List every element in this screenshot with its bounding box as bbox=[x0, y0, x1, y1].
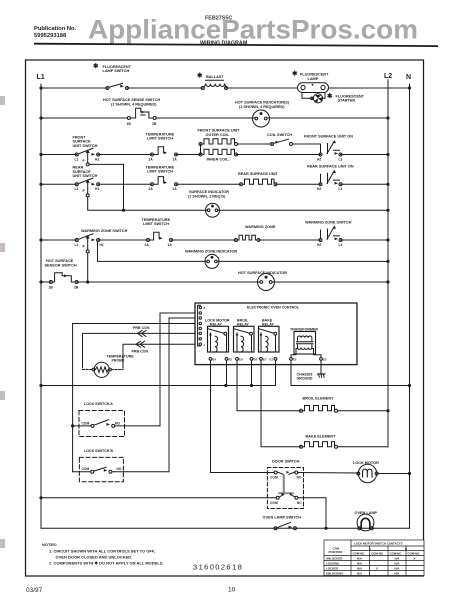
svg-text:1B: 1B bbox=[49, 285, 54, 289]
junction L2 rail8 bbox=[386, 280, 389, 283]
svg-text:NC: NC bbox=[297, 501, 302, 505]
svg-text:LAMP: LAMP bbox=[308, 77, 319, 81]
svg-text:WARMING ZONE SWITCH: WARMING ZONE SWITCH bbox=[305, 221, 352, 225]
svg-text:REAR SURFACE UNIT: REAR SURFACE UNIT bbox=[238, 172, 279, 176]
svg-text:LIMIT SWITCH: LIMIT SWITCH bbox=[147, 170, 173, 174]
wire EOC pin to lock switch B bbox=[169, 318, 195, 472]
wire PRB CON lower bbox=[123, 344, 195, 368]
svg-text:WARMING ZONE SWITCH: WARMING ZONE SWITCH bbox=[81, 229, 128, 233]
junction L1 rail6 bbox=[39, 238, 42, 241]
svg-text:WARMING ZONE: WARMING ZONE bbox=[245, 225, 276, 229]
svg-text:WARMING ZONE INDICATOR: WARMING ZONE INDICATOR bbox=[185, 250, 237, 254]
relay contact front surface unit ON bbox=[304, 135, 353, 162]
indicator hot surface indicator(s) bbox=[235, 101, 290, 128]
svg-text:AppliancePartsPros.com: AppliancePartsPros.com bbox=[88, 15, 418, 45]
notes text bbox=[42, 542, 164, 566]
svg-text:COM-NO: COM-NO bbox=[408, 552, 421, 556]
wire rail 6 warming zone row bbox=[41, 239, 77, 241]
wire rail 7 warming zone indicator row bbox=[217, 260, 388, 262]
switch lock switch B bbox=[73, 449, 169, 482]
switch coil switch bbox=[238, 133, 321, 146]
svg-text:2A: 2A bbox=[149, 187, 154, 191]
connector PRB CON upper bbox=[133, 326, 150, 336]
svg-text:REAR SURFACE UNIT ON: REAR SURFACE UNIT ON bbox=[307, 164, 354, 168]
terminal E3 bbox=[320, 358, 323, 361]
relay contact warming zone switch bbox=[305, 221, 352, 247]
svg-text:L3: L3 bbox=[339, 187, 343, 191]
svg-text:COM-NO: COM-NO bbox=[371, 552, 384, 556]
svg-text:UNIT SWITCH: UNIT SWITCH bbox=[73, 144, 98, 148]
svg-text:COIL SWITCH: COIL SWITCH bbox=[267, 133, 292, 137]
junction L1 rail2 bbox=[39, 116, 42, 119]
wire rail 2 hot surface sense row bbox=[41, 117, 127, 119]
svg-text:LOCKING: LOCKING bbox=[326, 561, 340, 565]
svg-text:NOTES:: NOTES: bbox=[42, 542, 57, 547]
svg-text:RELAY: RELAY bbox=[237, 322, 249, 326]
svg-text:2A: 2A bbox=[149, 157, 154, 161]
resistor rear surface unit bbox=[238, 172, 279, 186]
svg-text:COM-NC: COM-NC bbox=[353, 552, 366, 556]
switch warming zone switch bbox=[75, 229, 128, 253]
junction L2 rail3 bbox=[386, 153, 389, 156]
connector EOC pin strip bbox=[198, 305, 206, 347]
starter fluorescent starter bbox=[302, 93, 365, 103]
svg-text:BAKE ELEMENT: BAKE ELEMENT bbox=[306, 434, 337, 438]
svg-text:H2: H2 bbox=[317, 157, 321, 161]
switch hot surface sense switch bbox=[103, 98, 160, 126]
svg-text:✱: ✱ bbox=[292, 71, 297, 78]
wire rail 3 front surface unit row bbox=[41, 154, 77, 156]
svg-text:Publication No.: Publication No. bbox=[34, 26, 77, 32]
svg-text:LIMIT SWITCH: LIMIT SWITCH bbox=[143, 222, 169, 226]
svg-text:ELECTRONIC OVEN CONTROL: ELECTRONIC OVEN CONTROL bbox=[247, 306, 300, 310]
wire N rail bbox=[409, 84, 411, 528]
svg-text:OVEN DOOR CLOSED AND UNLOCKED.: OVEN DOOR CLOSED AND UNLOCKED. bbox=[56, 555, 133, 560]
relay lock motor relay bbox=[205, 319, 230, 353]
svg-text:PROBE: PROBE bbox=[112, 359, 125, 363]
terminal E5 bbox=[225, 358, 228, 361]
junction L1 rail3 bbox=[39, 153, 42, 156]
svg-text:X: X bbox=[376, 566, 378, 570]
thermostat temperature limit switch front bbox=[146, 133, 178, 162]
svg-text:E4: E4 bbox=[213, 357, 217, 361]
switch hot surface sensor switch bbox=[45, 259, 79, 289]
svg-text:2B: 2B bbox=[74, 285, 79, 289]
svg-text:H1: H1 bbox=[100, 243, 104, 247]
svg-text:FRONT SURFACE UNIT: FRONT SURFACE UNIT bbox=[198, 129, 241, 133]
terminal E7 bbox=[260, 358, 263, 361]
wire EOC pin to lock switch A bbox=[160, 313, 195, 426]
resistor bake element bbox=[300, 434, 389, 448]
svg-text:L2: L2 bbox=[384, 73, 392, 80]
svg-text:03/97: 03/97 bbox=[26, 587, 43, 594]
svg-text:E3: E3 bbox=[323, 357, 327, 361]
wire L1 bus bbox=[40, 84, 42, 528]
svg-text:LAMP SWITCH: LAMP SWITCH bbox=[103, 69, 130, 73]
lamp fluorescent lamp bbox=[292, 71, 329, 93]
relay contact rear surface unit ON bbox=[307, 164, 354, 191]
wire transformer to E2 bbox=[291, 349, 298, 358]
svg-text:POSITION: POSITION bbox=[329, 550, 343, 554]
junction L2 rail2 bbox=[386, 116, 389, 119]
svg-text:8: 8 bbox=[204, 306, 206, 310]
svg-text:FLUORESCENT: FLUORESCENT bbox=[300, 73, 329, 77]
junction L1 door com bbox=[39, 496, 42, 499]
wire warming H1 to indicator rail 7 bbox=[98, 242, 207, 262]
wire warming P to rail 8 bbox=[87, 253, 89, 282]
svg-text:H1: H1 bbox=[95, 187, 99, 191]
svg-text:E2: E2 bbox=[293, 357, 297, 361]
junction N lock motor bbox=[408, 472, 411, 475]
svg-text:GROUND: GROUND bbox=[297, 377, 313, 381]
svg-text:NO: NO bbox=[117, 467, 122, 471]
svg-text:LOCK SWITCH B: LOCK SWITCH B bbox=[84, 449, 113, 453]
junction warming P rail8 bbox=[86, 280, 89, 283]
resistor front surface unit outer coil bbox=[198, 129, 241, 155]
svg-text:L3: L3 bbox=[339, 157, 343, 161]
thermostat temperature limit switch warming bbox=[142, 218, 173, 247]
svg-text:COM: COM bbox=[270, 501, 278, 505]
svg-text:2. COMPONENTS WITH ✱ DO NOT AP: 2. COMPONENTS WITH ✱ DO NOT APPLY ON ALL… bbox=[49, 561, 164, 566]
svg-text:(1 SHOWN, 4 REQUIRED): (1 SHOWN, 4 REQUIRED) bbox=[239, 105, 285, 109]
svg-text:LIMIT SWITCH: LIMIT SWITCH bbox=[147, 137, 173, 141]
lamp oven lamp bbox=[355, 511, 378, 531]
svg-text:TRANSFORMER: TRANSFORMER bbox=[290, 328, 318, 332]
terminal E4 bbox=[209, 358, 212, 361]
svg-text:N: N bbox=[406, 74, 411, 81]
junction L2 rail7 bbox=[386, 260, 389, 263]
wire PRB CON upper bbox=[83, 333, 196, 368]
svg-text:1B: 1B bbox=[127, 122, 132, 126]
svg-text:10: 10 bbox=[228, 587, 236, 594]
svg-text:UNIT SWITCH: UNIT SWITCH bbox=[73, 174, 98, 178]
relay broil relay bbox=[234, 319, 255, 353]
svg-text:P: P bbox=[83, 245, 86, 249]
wire E4 to door switch bbox=[210, 360, 212, 472]
junction L1 rail9a bbox=[39, 384, 42, 387]
indicator hot surface indicator bbox=[238, 271, 287, 291]
junction lock bus switch A bbox=[71, 424, 74, 427]
wire transformer to E3 bbox=[312, 349, 321, 358]
switch front surface unit switch bbox=[73, 136, 100, 166]
svg-text:5995293188: 5995293188 bbox=[34, 33, 67, 39]
wire EOC pin to lock switch bus bbox=[73, 324, 195, 472]
switch fluorescent lamp switch bbox=[93, 63, 132, 90]
terminal E1 bbox=[274, 358, 277, 361]
svg-text:STARTER: STARTER bbox=[338, 99, 356, 103]
svg-text:RELAY: RELAY bbox=[262, 322, 274, 326]
terminal E2 bbox=[290, 358, 293, 361]
svg-text:UNLOCKING: UNLOCKING bbox=[326, 571, 344, 575]
transformer bbox=[290, 328, 318, 355]
wire rail 1 fluorescent row bbox=[41, 87, 108, 89]
wire door COM lower to L1 bbox=[41, 497, 276, 499]
indicator surface indicator bbox=[188, 190, 229, 217]
svg-text:L1: L1 bbox=[37, 74, 45, 81]
svg-text:2A: 2A bbox=[145, 243, 150, 247]
scan artifacts left edge bbox=[0, 96, 5, 548]
relay bake relay bbox=[259, 319, 280, 353]
svg-text:COM: COM bbox=[82, 421, 90, 425]
wire E1 to rail 9a bbox=[275, 360, 277, 385]
resistor broil element bbox=[300, 397, 389, 413]
svg-text:1A: 1A bbox=[173, 157, 178, 161]
svg-text:E5: E5 bbox=[229, 357, 233, 361]
svg-text:✱: ✱ bbox=[197, 73, 202, 80]
resistor warming zone bbox=[235, 225, 276, 242]
svg-text:BALLAST: BALLAST bbox=[206, 75, 224, 79]
switch rear surface unit switch bbox=[73, 166, 100, 197]
svg-text:OVEN LAMP SWITCH: OVEN LAMP SWITCH bbox=[263, 516, 302, 520]
border frame bbox=[26, 60, 424, 576]
svg-text:P: P bbox=[83, 159, 86, 163]
svg-text:COM: COM bbox=[270, 475, 278, 479]
svg-text:1A: 1A bbox=[168, 243, 173, 247]
svg-text:1A: 1A bbox=[173, 187, 178, 191]
svg-text:FEB27S5C: FEB27S5C bbox=[205, 16, 232, 22]
svg-text:1: 1 bbox=[204, 343, 206, 347]
wire L2 rail bbox=[387, 80, 389, 447]
svg-text:COM: COM bbox=[82, 467, 90, 471]
junction N rail9b bbox=[408, 384, 411, 387]
motor lock motor bbox=[298, 461, 410, 483]
wire E2 to rail 9b bbox=[290, 360, 292, 385]
svg-text:LOCK SWITCH A: LOCK SWITCH A bbox=[84, 402, 113, 406]
svg-text:X: X bbox=[414, 556, 416, 560]
svg-text:UNLOCKED: UNLOCKED bbox=[326, 556, 342, 560]
connector PRB CON lower bbox=[132, 341, 149, 353]
wire bottom rail bbox=[41, 527, 410, 529]
svg-text:PRB CON: PRB CON bbox=[133, 326, 150, 330]
svg-text:NO: NO bbox=[115, 421, 120, 425]
svg-text:E6: E6 bbox=[254, 357, 258, 361]
wire rail 4 rear surface unit row bbox=[41, 183, 77, 185]
svg-text:PRB CON: PRB CON bbox=[132, 349, 149, 353]
junction L2 rail4 bbox=[386, 183, 389, 186]
wire rail 8 hot surface sensor row bbox=[41, 281, 51, 283]
inductor ballast bbox=[197, 73, 228, 90]
ground chassis ground bbox=[297, 360, 325, 380]
svg-text:P: P bbox=[83, 189, 86, 193]
svg-text:B: B bbox=[405, 547, 407, 551]
svg-text:LOCKED: LOCKED bbox=[326, 566, 338, 570]
svg-text:L3: L3 bbox=[339, 243, 343, 247]
svg-text:L1: L1 bbox=[75, 157, 79, 161]
svg-text:H2: H2 bbox=[317, 187, 321, 191]
junction L1 rail1 bbox=[39, 86, 42, 89]
svg-text:1. CIRCUIT SHOWN WITH ALL CONT: 1. CIRCUIT SHOWN WITH ALL CONTROLS SET T… bbox=[49, 549, 155, 554]
wire rear P to rail 5 bbox=[88, 197, 124, 210]
indicator warming zone indicator bbox=[185, 250, 237, 269]
switch door switch bbox=[211, 459, 304, 508]
svg-text:NO: NO bbox=[297, 475, 302, 479]
svg-text:L1: L1 bbox=[75, 187, 79, 191]
junction L2 rail6 bbox=[386, 238, 389, 241]
header publication number bbox=[34, 26, 77, 39]
sensor temperature probe bbox=[83, 355, 135, 378]
svg-text:E1: E1 bbox=[270, 357, 274, 361]
resistor front surface unit inner coil bbox=[199, 149, 238, 161]
junction L1 rail8 bbox=[39, 280, 42, 283]
junction E5 rail9a bbox=[224, 384, 227, 387]
wire rail 9a L1 feed bbox=[41, 385, 276, 387]
wire door NC to bottom rail bbox=[298, 498, 326, 529]
svg-text:L1: L1 bbox=[75, 243, 79, 247]
svg-text:✱: ✱ bbox=[327, 93, 332, 100]
wire rail 9b transformer to N bbox=[291, 385, 410, 387]
terminal E6 bbox=[250, 358, 253, 361]
terminal E9 bbox=[236, 358, 239, 361]
header rule bbox=[34, 43, 438, 47]
svg-text:E7: E7 bbox=[263, 357, 267, 361]
svg-text:OUTER COIL: OUTER COIL bbox=[206, 133, 230, 137]
svg-text:FRONT SURFACE UNIT ON: FRONT SURFACE UNIT ON bbox=[304, 135, 353, 139]
svg-text:WIRING DIAGRAM: WIRING DIAGRAM bbox=[200, 40, 248, 46]
wire E9 to broil element bbox=[237, 360, 301, 410]
svg-text:LOCK MOTOR SWITCH CONTACTS: LOCK MOTOR SWITCH CONTACTS bbox=[354, 542, 403, 546]
svg-text:H2: H2 bbox=[317, 243, 321, 247]
junction L1 rail4 bbox=[39, 183, 42, 186]
junction E6 rail9a bbox=[250, 384, 253, 387]
junction L2 rail5 bbox=[386, 209, 389, 212]
svg-text:(1 SHOWN, 2 REQ'D): (1 SHOWN, 2 REQ'D) bbox=[188, 194, 226, 198]
svg-text:✱: ✱ bbox=[93, 63, 98, 70]
junction bottom rail NC bbox=[324, 527, 327, 530]
svg-text:COM-NC: COM-NC bbox=[390, 552, 403, 556]
svg-text:SENSOR SWITCH: SENSOR SWITCH bbox=[45, 263, 77, 267]
wire E7 to bake element bbox=[261, 360, 301, 447]
switch lock switch A bbox=[73, 402, 160, 437]
svg-text:BROIL ELEMENT: BROIL ELEMENT bbox=[303, 397, 335, 401]
junction front P feed rail5 bbox=[122, 209, 125, 212]
wire front P to indicator feed bbox=[89, 164, 123, 210]
svg-text:316002618: 316002618 bbox=[193, 563, 243, 572]
svg-text:E9: E9 bbox=[239, 357, 243, 361]
svg-text:(1 SHOWN, 4 REQUIRED): (1 SHOWN, 4 REQUIRED) bbox=[111, 102, 157, 106]
svg-text:DOOR SWITCH: DOOR SWITCH bbox=[272, 459, 300, 463]
thermostat temperature limit switch rear bbox=[146, 166, 178, 192]
svg-text:H1: H1 bbox=[95, 157, 99, 161]
junction N rail1 bbox=[408, 86, 411, 89]
switch oven lamp switch bbox=[263, 516, 302, 530]
junction L2 broil bbox=[386, 409, 389, 412]
svg-text:INNER COIL.: INNER COIL. bbox=[207, 158, 230, 162]
wire E5 to rail 9a bbox=[226, 360, 228, 385]
table lock motor switch contacts bbox=[324, 540, 424, 576]
svg-text:RELAY: RELAY bbox=[210, 322, 222, 326]
wire rail 5 surface indicator row bbox=[124, 209, 208, 211]
box electronic oven control bbox=[195, 303, 357, 365]
wire E6 to rail 9a bbox=[251, 360, 253, 385]
svg-text:2B: 2B bbox=[152, 122, 157, 126]
